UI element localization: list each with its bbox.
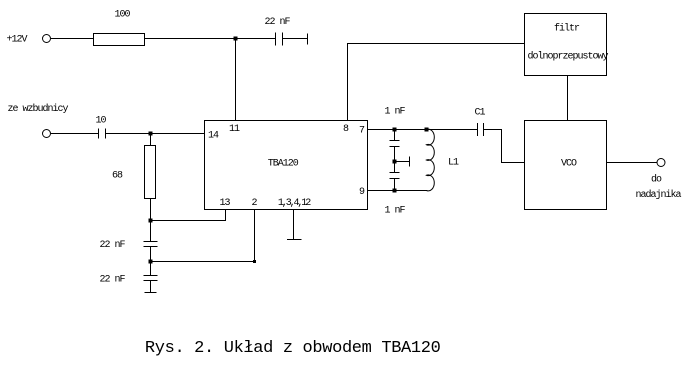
wire node C to pin 13 — [151, 210, 226, 221]
wire node G to cap 1nF b — [394, 162, 396, 173]
svg-text:filtr: filtr — [554, 23, 580, 35]
node F junction dot — [425, 128, 428, 131]
svg-text:10: 10 — [95, 116, 106, 127]
capacitor C1 right plate — [483, 123, 485, 136]
svg-text:TBA120: TBA120 — [268, 159, 299, 170]
node G junction dot — [393, 160, 396, 163]
svg-text:1 nF: 1 nF — [384, 206, 405, 217]
wire node D to cap 22nF b — [150, 262, 152, 276]
capacitor 10 left plate — [98, 129, 100, 139]
ground bar — [287, 239, 302, 241]
capacitor 22nF top left plate — [275, 33, 277, 46]
svg-text:VCO: VCO — [561, 159, 577, 170]
svg-text:14: 14 — [208, 131, 219, 142]
svg-text:1 nF: 1 nF — [384, 107, 405, 118]
svg-text:22 nF: 22 nF — [99, 240, 125, 251]
capacitor 22nF b bottom plate — [144, 280, 158, 282]
wire filtr to VCO — [567, 76, 569, 121]
svg-text:13: 13 — [219, 198, 230, 209]
svg-text:100: 100 — [114, 10, 130, 21]
wire cap to open end — [283, 38, 308, 40]
wire cap b to pin 9 rail — [394, 179, 396, 191]
stub end tick — [409, 157, 411, 167]
wire cap b to open end — [150, 281, 152, 293]
node A junction dot — [234, 37, 237, 40]
svg-text:L1: L1 — [448, 158, 459, 169]
capacitor 1nF a bottom plate — [390, 146, 400, 148]
node C junction dot — [149, 219, 152, 222]
capacitor 22nF a bottom plate — [144, 246, 158, 248]
terminal ze wzbudnicy — [43, 130, 51, 138]
svg-text:22 nF: 22 nF — [264, 17, 290, 28]
svg-text:ze wzbudnicy: ze wzbudnicy — [7, 103, 68, 115]
svg-text:11: 11 — [229, 124, 240, 135]
wire VCO output — [607, 162, 658, 164]
pin 2 corner dot — [254, 261, 256, 263]
node D junction dot — [149, 260, 152, 263]
wire R68 to node C — [150, 199, 152, 221]
capacitor 22nF b top plate — [144, 275, 158, 277]
wire pin 8 to filtr — [348, 44, 525, 121]
VCO box — [525, 121, 607, 210]
svg-text:do: do — [651, 174, 662, 186]
wire cap chain top — [394, 130, 396, 141]
capacitor 1nF b bottom plate — [390, 178, 400, 180]
capacitor 22nF top right plate — [282, 33, 284, 46]
IC U1 TBA120 body — [205, 121, 368, 210]
wire pins 1,3,4,12 to ground — [293, 210, 295, 240]
capacitor 10 right plate — [105, 129, 107, 139]
wire C10 to pin 14 — [106, 133, 205, 135]
wire terminal to R100 — [51, 38, 94, 40]
svg-text:22 nF: 22 nF — [99, 275, 125, 286]
wire node D to pin 2 — [151, 210, 255, 262]
inductor L1 coil — [426, 129, 434, 191]
wire C1 to VCO — [484, 130, 525, 163]
node H junction dot — [393, 189, 396, 192]
resistor R68 body — [145, 146, 156, 199]
svg-text:nadajnika: nadajnika — [635, 189, 681, 201]
open end tick — [307, 34, 309, 45]
resistor R100 body — [94, 34, 145, 46]
wire node B to R68 — [150, 134, 152, 146]
capacitor 1nF b top plate — [390, 172, 400, 174]
terminal +12V input — [43, 35, 51, 43]
capacitor 1nF a top plate — [390, 140, 400, 142]
svg-text:+12V: +12V — [6, 35, 27, 46]
wire R100 to node A — [145, 38, 276, 40]
stub wire from node G — [395, 161, 410, 163]
capacitor 22nF a top plate — [144, 241, 158, 243]
wire pin 7 to C1 — [368, 129, 478, 131]
open end bar — [145, 292, 157, 294]
svg-text:dolnoprzepustowy: dolnoprzepustowy — [527, 51, 608, 63]
wire cap a to node G — [394, 147, 396, 162]
svg-text:1,3,4,12: 1,3,4,12 — [278, 198, 311, 209]
svg-text:C1: C1 — [474, 108, 485, 119]
node E junction dot — [393, 128, 396, 131]
wire node C to cap 22nF a — [150, 221, 152, 242]
wire terminal to C10 — [51, 133, 99, 135]
node B junction dot — [149, 132, 152, 135]
wire pin 9 — [368, 190, 428, 192]
svg-text:Rys. 2. Układ z obwodem TBA120: Rys. 2. Układ z obwodem TBA120 — [145, 339, 441, 358]
wire cap a to node D — [150, 247, 152, 262]
terminal do nadajnika — [657, 159, 665, 167]
filtr dolnoprzepustowy box — [525, 14, 607, 76]
svg-text:68: 68 — [112, 171, 123, 182]
capacitor C1 left plate — [477, 123, 479, 136]
wire node A to pin 11 — [235, 39, 237, 121]
